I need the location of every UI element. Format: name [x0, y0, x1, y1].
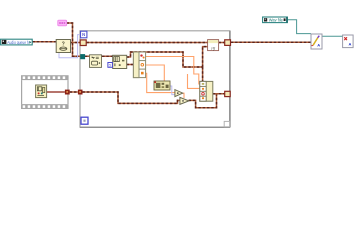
wire: error wire tunnel to write icon	[231, 41, 311, 43]
wire: orange branch into bundle row2	[188, 74, 201, 88]
wire: node B cluster out to unbundle	[127, 64, 134, 66]
unbundle by name node	[133, 52, 145, 78]
flat sequence structure	[21, 75, 69, 109]
wire: flat sequence icon to its tunnel	[47, 91, 65, 93]
tunnel flat sequence	[65, 90, 70, 95]
tunnel left top	[80, 40, 86, 46]
node A: queue status VI	[56, 40, 70, 53]
svg-text:Wav file: Wav file	[269, 18, 284, 23]
tunnel loop left bottom	[78, 90, 83, 95]
triangle node 2	[180, 97, 189, 104]
wire: lavender node A to N terminal	[59, 35, 80, 58]
flat sequence inner icon	[36, 85, 47, 98]
svg-text:N: N	[82, 32, 85, 37]
indicator Wav file path	[263, 17, 288, 23]
wire: node B error out routing right	[127, 52, 203, 67]
wire: orange DBL unbundle row2 to scale node	[146, 65, 165, 81]
tunnel right top	[225, 40, 231, 46]
wire: between flat seq tunnel and loop tunnel	[70, 91, 78, 93]
svg-text:5: 5	[109, 64, 111, 68]
loop corner notch	[224, 121, 229, 126]
for loop border	[80, 31, 230, 128]
node C: get queue VI	[90, 55, 102, 68]
wire: teal between write and close icons	[322, 35, 343, 37]
wire: after triangle 2 around bundle to tunnel	[189, 94, 225, 108]
svg-text:A: A	[349, 42, 352, 47]
wire: orange triangle1 out to triangle2	[182, 93, 185, 98]
wire: from pink constant down to node B	[67, 23, 113, 56]
wire: lavender scale node to triangle1	[170, 86, 175, 95]
svg-text:A: A	[317, 43, 320, 48]
blue numeric constant	[108, 63, 113, 68]
bundle node	[200, 81, 213, 101]
teal junction square	[80, 54, 85, 59]
wire: bundle output to tunnel	[213, 93, 217, 95]
wire: error wire node A to left tunnel	[71, 42, 81, 44]
wire: orange DBL unbundle row3 to triangle1	[146, 73, 175, 92]
N count terminal	[81, 31, 87, 38]
wire: orange DBL unbundle row1 to bundle	[146, 57, 200, 85]
wire: main error wire across loop	[87, 42, 225, 44]
play sound node	[208, 40, 219, 51]
pink string constant	[58, 20, 67, 26]
control Audio queue handle	[1, 39, 33, 45]
wire: teal indicator to write icon	[288, 20, 312, 34]
wire: bottom error run inside loop	[83, 92, 181, 103]
node B: dequeue VI	[113, 55, 127, 68]
wire: error wire control to node A	[33, 41, 57, 43]
close file icon	[343, 35, 354, 48]
svg-text:Audio queue h: Audio queue h	[7, 40, 29, 45]
wire: blue constant to node B	[111, 64, 114, 66]
write file icon	[311, 34, 322, 49]
i iteration terminal	[81, 117, 88, 124]
triangle node 1	[175, 90, 183, 97]
tunnel right bottom	[225, 91, 231, 96]
scale/convert node	[154, 81, 170, 90]
wire: branch up to play node	[203, 47, 208, 67]
wire: branch down to bundle top	[202, 67, 204, 82]
